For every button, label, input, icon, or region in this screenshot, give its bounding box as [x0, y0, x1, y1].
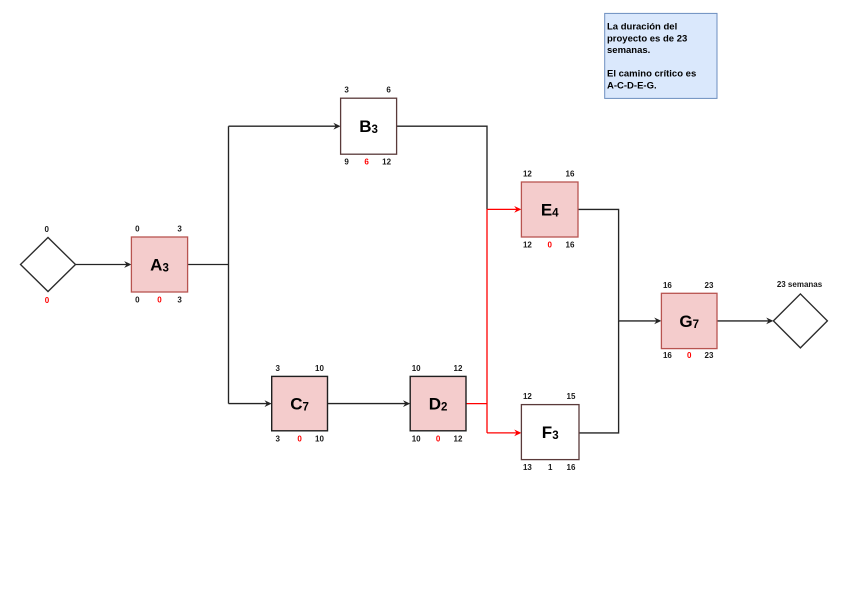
- svg-text:16: 16: [663, 281, 672, 290]
- svg-text:23: 23: [705, 351, 714, 360]
- svg-text:12: 12: [523, 392, 532, 401]
- svg-text:12: 12: [382, 158, 391, 167]
- svg-text:10: 10: [315, 434, 324, 443]
- svg-text:0: 0: [135, 296, 140, 305]
- svg-text:0: 0: [135, 225, 140, 234]
- svg-text:La duración del: La duración del: [607, 22, 677, 33]
- svg-text:12: 12: [454, 434, 463, 443]
- svg-text:9: 9: [344, 158, 349, 167]
- svg-text:0: 0: [297, 434, 302, 443]
- svg-text:0: 0: [45, 296, 50, 305]
- svg-text:6: 6: [386, 86, 391, 95]
- svg-text:23: 23: [705, 281, 714, 290]
- svg-text:0: 0: [157, 296, 162, 305]
- svg-text:12: 12: [523, 170, 532, 179]
- svg-text:23 semanas: 23 semanas: [777, 280, 823, 289]
- svg-text:El camino crítico es: El camino crítico es: [607, 69, 696, 80]
- svg-text:0: 0: [44, 225, 49, 234]
- svg-text:12: 12: [454, 364, 463, 373]
- svg-text:proyecto es de 23: proyecto es de 23: [607, 33, 687, 44]
- svg-text:12: 12: [523, 241, 532, 250]
- svg-text:3: 3: [275, 434, 280, 443]
- svg-text:1: 1: [548, 463, 553, 472]
- svg-text:10: 10: [412, 434, 421, 443]
- svg-text:16: 16: [566, 241, 575, 250]
- svg-text:6: 6: [364, 158, 369, 167]
- svg-text:3: 3: [177, 225, 182, 234]
- svg-text:0: 0: [436, 434, 441, 443]
- svg-text:13: 13: [523, 463, 532, 472]
- svg-text:3: 3: [177, 296, 182, 305]
- svg-text:15: 15: [567, 392, 576, 401]
- svg-text:16: 16: [567, 463, 576, 472]
- svg-text:10: 10: [412, 364, 421, 373]
- svg-text:3: 3: [275, 364, 280, 373]
- svg-text:16: 16: [566, 170, 575, 179]
- svg-text:10: 10: [315, 364, 324, 373]
- svg-text:3: 3: [344, 86, 349, 95]
- svg-text:semanas.: semanas.: [607, 45, 650, 56]
- svg-text:A-C-D-E-G.: A-C-D-E-G.: [607, 80, 657, 91]
- svg-text:0: 0: [687, 351, 692, 360]
- svg-text:16: 16: [663, 351, 672, 360]
- svg-text:0: 0: [547, 241, 552, 250]
